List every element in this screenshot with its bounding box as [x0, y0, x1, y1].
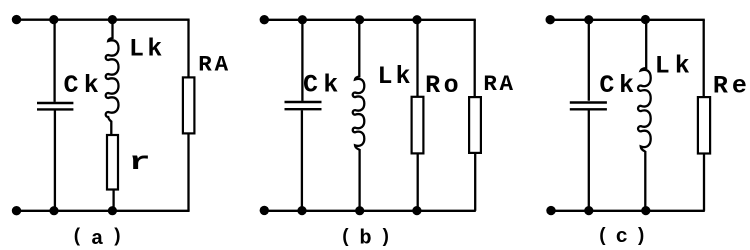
svg-text:r: r	[129, 149, 158, 177]
svg-text:RA: RA	[483, 71, 515, 97]
wire Ck branch upper (c)	[588, 20, 590, 101]
svg-text:Lk: Lk	[378, 62, 414, 91]
svg-text:Lk: Lk	[129, 35, 165, 64]
node dot c-top-Lk	[641, 15, 650, 24]
wire Ck branch upper (a)	[53, 20, 55, 102]
wire Ro to bottom rail (b)	[417, 153, 419, 210]
node dot c-bottom-Ck	[584, 206, 593, 215]
capacitor Ck plates (c)	[570, 103, 607, 110]
node dot b-top-Lk	[355, 15, 364, 24]
node dot c-bottom-Lk	[641, 206, 650, 215]
node dot b-bottom-Ck	[297, 206, 306, 215]
wire RA to bottom rail (a)	[187, 134, 189, 211]
node dot c-bottom-terminal	[546, 206, 555, 215]
wire Re branch upper (c)	[703, 20, 705, 97]
node dot b-bottom-Ro	[412, 206, 421, 215]
wire top rail (b)	[264, 19, 476, 21]
wire Ck branch lower (a)	[54, 111, 56, 211]
node dot a-top-terminal	[12, 15, 21, 24]
wire Ck branch lower (b)	[301, 110, 303, 211]
capacitor Ck plates (a)	[37, 103, 73, 109]
wire RA branch upper (a)	[187, 20, 189, 78]
wire RA branch upper (b)	[474, 20, 476, 97]
capacitor Ck plates (b)	[285, 102, 322, 109]
wire top rail (a)	[17, 19, 190, 21]
resistor RA body (b)	[469, 97, 481, 153]
inductor Lk (a)	[106, 20, 119, 135]
node dot a-top-Ck	[49, 15, 58, 24]
svg-text:Ro: Ro	[425, 71, 462, 100]
node dot a-bottom-Ck	[49, 206, 58, 215]
wire RA to bottom rail (b)	[474, 153, 476, 211]
svg-text:(a): (a)	[72, 225, 131, 250]
wire bottom rail (b)	[264, 210, 476, 212]
wire Ck branch lower (c)	[588, 111, 590, 211]
wire Lk to bottom rail (c)	[644, 151, 646, 211]
resistor Ro body (b)	[412, 97, 424, 154]
node dot b-bottom-terminal	[260, 206, 269, 215]
wire Lk to bottom rail (b)	[358, 149, 360, 211]
resistor Re body (c)	[698, 97, 710, 153]
node dot b-top-Ck	[298, 15, 307, 24]
node dot b-bottom-Lk	[355, 206, 364, 215]
wire Ro branch upper (b)	[416, 20, 418, 97]
node dot c-top-Ck	[584, 15, 593, 24]
wire Ck branch upper (b)	[301, 20, 303, 101]
svg-text:RA: RA	[198, 52, 231, 78]
wire Re to bottom rail (c)	[703, 154, 705, 211]
node dot a-top-Lk	[108, 15, 117, 24]
node dot b-top-terminal	[260, 15, 269, 24]
wire bottom rail (a)	[17, 210, 190, 212]
wire bottom rail (c)	[550, 210, 705, 212]
node dot a-bottom-terminal	[12, 206, 21, 215]
node dot a-bottom-r	[108, 206, 117, 215]
resistor RA body (a)	[183, 77, 195, 133]
node dot b-top-Ro	[412, 15, 421, 24]
svg-text:Ck: Ck	[599, 71, 638, 100]
svg-text:Re: Re	[713, 71, 750, 100]
resistor r body (a)	[107, 135, 118, 190]
svg-text:Ck: Ck	[303, 71, 343, 100]
wire r to bottom rail (a)	[112, 190, 114, 211]
svg-text:Lk: Lk	[655, 51, 695, 80]
node dot c-top-terminal	[546, 15, 555, 24]
svg-text:(c): (c)	[597, 225, 654, 249]
inductor Lk (b)	[353, 20, 365, 150]
svg-text:(b): (b)	[340, 226, 399, 250]
svg-text:Ck: Ck	[64, 71, 105, 100]
wire top rail (c)	[550, 19, 705, 21]
inductor Lk (c)	[638, 20, 651, 152]
